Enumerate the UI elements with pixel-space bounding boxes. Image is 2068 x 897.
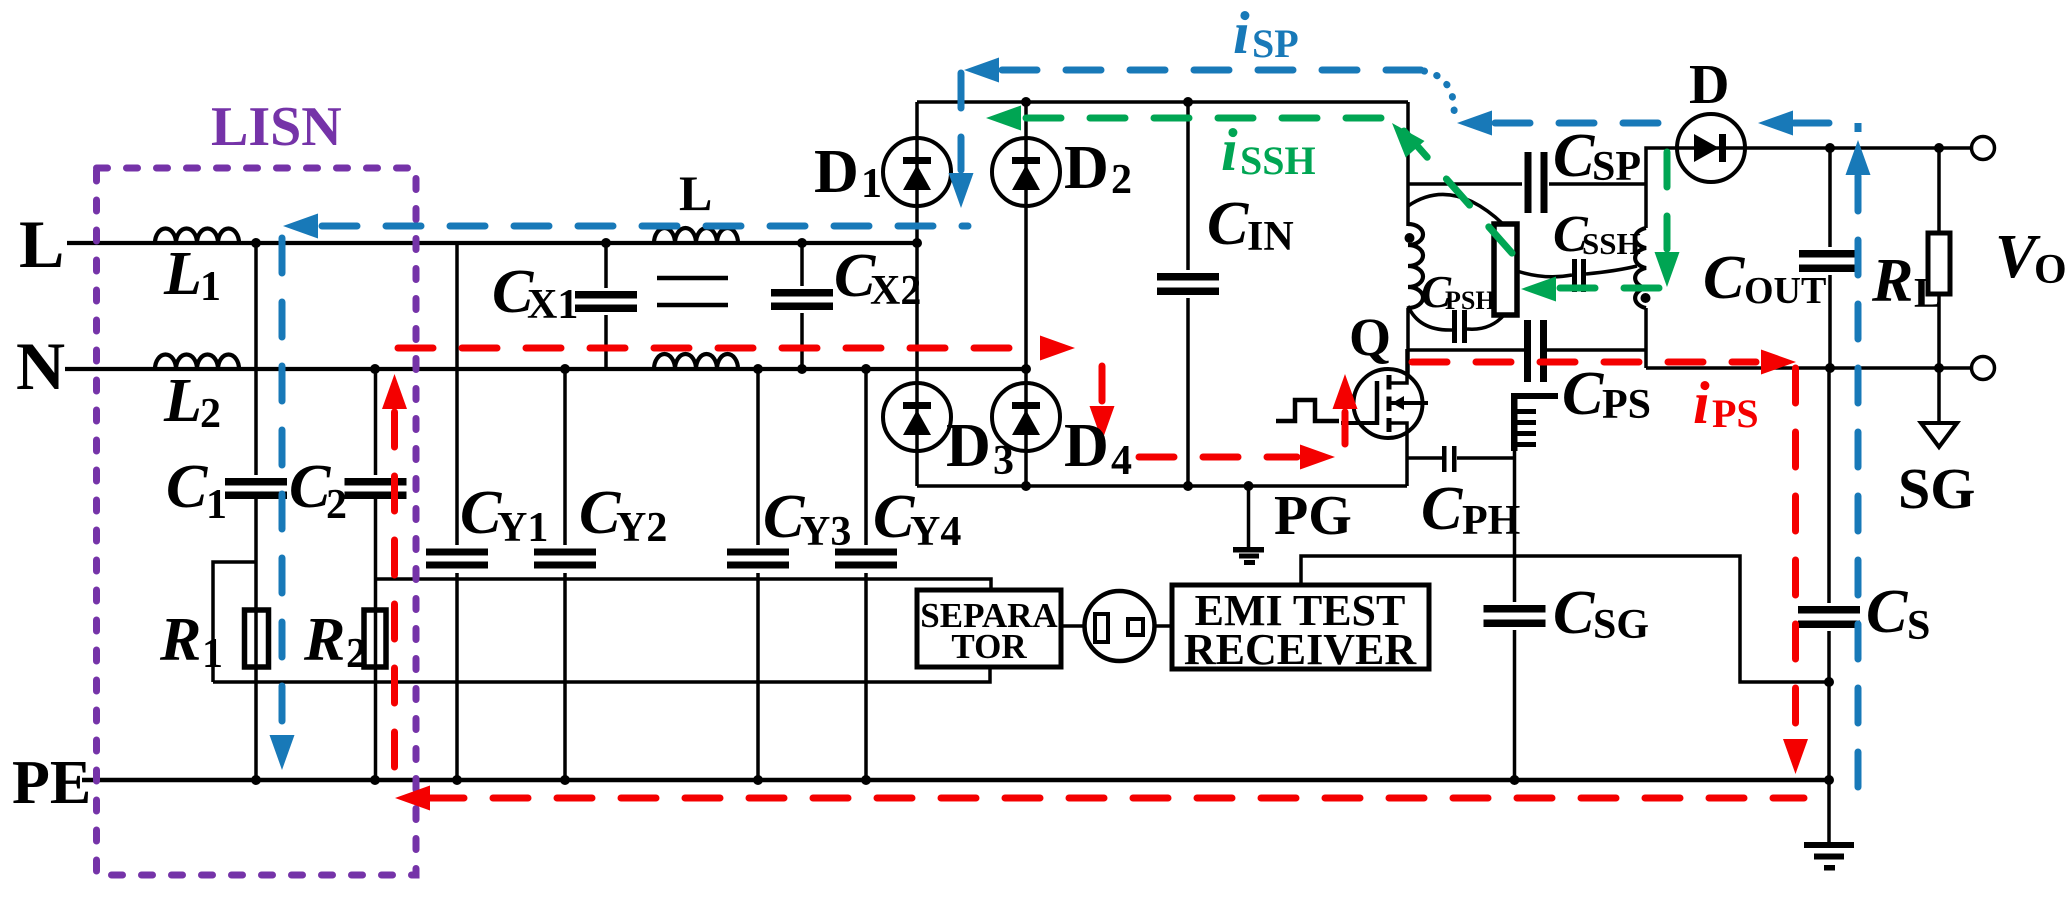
label CPH — [1421, 475, 1520, 544]
label CY1 — [460, 479, 548, 551]
capacitor CIN — [1157, 270, 1220, 298]
node junction 866,369 — [861, 364, 871, 374]
node junction 1939,368 — [1934, 363, 1944, 373]
wire CS branch — [1827, 368, 1831, 844]
wire iSP top segment — [1002, 67, 1424, 74]
node junction 758,780 — [753, 775, 763, 785]
label R1 — [159, 606, 223, 677]
svg-text:PS: PS — [1712, 391, 1759, 436]
arrow iSSH left top — [986, 106, 1021, 131]
arrow iSP left top — [964, 58, 999, 83]
transistor Q circle — [1354, 369, 1423, 438]
wire secondary vertical upper — [1644, 184, 1648, 228]
svg-text:Y1: Y1 — [497, 505, 548, 551]
label C1 — [166, 453, 227, 528]
transistor Q drain lead — [1389, 349, 1407, 383]
label D diode — [1689, 54, 1729, 116]
label CSSH — [1553, 206, 1641, 263]
inductor choke bottom winding — [654, 354, 738, 369]
wire COUT branch — [1828, 148, 1832, 368]
wire iSP mid segment — [1495, 120, 1686, 127]
wire CSSH link right — [1586, 266, 1637, 274]
wire CSSH link left — [1517, 271, 1572, 277]
wire iPS CPS segment — [1412, 359, 1756, 366]
wire bridge left rail — [915, 102, 919, 486]
transistor Q source lead — [1389, 423, 1407, 486]
node junction 565,369 — [560, 364, 570, 374]
label COUT — [1703, 244, 1826, 312]
arrow iSSH diag — [1392, 123, 1425, 158]
choke core line upper — [657, 276, 728, 281]
wire bridge top rail — [917, 100, 1408, 104]
label VO — [1995, 223, 2067, 293]
arrow iSSH left — [1521, 277, 1556, 302]
label iPS — [1693, 370, 1759, 436]
arrow iPS up LISN — [382, 374, 407, 409]
arrow iPS left PE — [395, 786, 430, 811]
svg-text:C: C — [1703, 244, 1745, 312]
wire primary bottom — [1406, 308, 1410, 383]
svg-text:C: C — [1553, 579, 1595, 647]
arrow iPS down D4 — [1090, 406, 1115, 441]
inductor L2 — [155, 355, 239, 370]
node junction 758,369 — [753, 364, 763, 374]
ground earth — [1804, 842, 1854, 871]
wire secondary top — [1646, 148, 1677, 184]
label N — [16, 328, 65, 404]
svg-text:i: i — [1233, 0, 1250, 66]
arrow iSSH down — [1655, 252, 1680, 287]
capacitor COUT — [1799, 247, 1861, 275]
node junction 606,243 — [601, 238, 611, 248]
label LISN — [211, 96, 342, 158]
wire iPS right vertical — [1792, 368, 1799, 734]
wire N line — [65, 367, 1026, 371]
wire C2 branch — [374, 369, 378, 780]
label C2 — [289, 453, 347, 528]
svg-text:L: L — [163, 240, 202, 308]
capacitor CSG — [1484, 602, 1547, 630]
label choke L — [679, 165, 712, 221]
arrow iSP left at LISN — [283, 214, 318, 239]
arrow iPS right — [1040, 336, 1075, 361]
svg-text:R: R — [303, 606, 345, 674]
wire heatsink to PE — [1513, 450, 1517, 780]
inductor choke top winding — [654, 228, 738, 243]
svg-text:PG: PG — [1274, 485, 1352, 547]
svg-text:X2: X2 — [870, 268, 921, 314]
svg-text:S: S — [1907, 603, 1930, 649]
wire PE line — [82, 778, 1829, 783]
svg-text:Y2: Y2 — [616, 505, 667, 551]
ground SG triangle — [1921, 423, 1957, 447]
svg-text:C: C — [460, 479, 502, 547]
node junction 256,243 — [251, 238, 261, 248]
svg-text:OUT: OUT — [1744, 270, 1826, 312]
box SEPARATOR — [917, 590, 1061, 667]
wire gate lead — [1341, 421, 1375, 425]
node junction 1830,368 — [1825, 363, 1835, 373]
svg-text:4: 4 — [1111, 438, 1132, 484]
node junction 1026,486 — [1021, 481, 1031, 491]
node junction 1188,486 — [1183, 481, 1193, 491]
svg-text:2: 2 — [346, 631, 367, 677]
node junction 1248.5,486 — [1244, 481, 1254, 491]
svg-text:3: 3 — [993, 438, 1014, 484]
node junction 375,780 — [370, 775, 380, 785]
label CPS — [1562, 360, 1651, 428]
svg-text:N: N — [16, 328, 65, 404]
capacitor CSP — [1522, 150, 1549, 215]
svg-text:2: 2 — [326, 482, 347, 528]
box EMI TEST RECEIVER — [1172, 585, 1429, 669]
svg-text:L: L — [19, 206, 64, 282]
svg-text:SP: SP — [1252, 21, 1299, 66]
resistor snubber — [1494, 224, 1517, 315]
label Q — [1349, 307, 1391, 367]
label D1 — [814, 138, 882, 207]
node junction 1939,148 — [1934, 143, 1944, 153]
arrow iPS down right — [1783, 739, 1808, 774]
wire iSP dotted curve — [1424, 71, 1457, 121]
wire CIN branch — [1186, 102, 1190, 486]
svg-text:SSH: SSH — [1582, 226, 1641, 261]
node junction 1830,148 — [1825, 143, 1835, 153]
arrow iSP mid left — [1457, 111, 1492, 136]
svg-text:TOR: TOR — [951, 627, 1027, 666]
arrow iPS up Q — [1333, 374, 1358, 409]
label CY3 — [763, 483, 851, 555]
node junction 1829,780 — [1824, 775, 1834, 785]
wire CY3 branch — [756, 369, 760, 780]
inductor transformer secondary — [1635, 228, 1646, 308]
capacitor CY1 — [426, 545, 488, 573]
wire CSP link — [1408, 182, 1645, 186]
transistor Q channel — [1387, 375, 1392, 432]
wire output top rail — [1745, 146, 1971, 150]
svg-text:Y4: Y4 — [910, 509, 961, 555]
arrow iSP down to L — [949, 173, 974, 208]
svg-text:SP: SP — [1592, 144, 1641, 190]
label CY4 — [873, 483, 961, 555]
svg-text:L: L — [163, 367, 202, 435]
heatsink — [1511, 393, 1558, 451]
wire iPS down at D4 — [1099, 366, 1106, 404]
wire RL top — [1937, 148, 1941, 233]
label CSP — [1553, 122, 1641, 190]
label CIN — [1207, 190, 1294, 260]
label EMI TEST RECEIVER text — [1184, 586, 1417, 674]
label CPSH — [1421, 267, 1496, 317]
terminal VO+ — [1972, 137, 1995, 160]
node junction 917,243 — [912, 238, 922, 248]
wire iSP L segment — [322, 223, 968, 230]
wire iSP drop to L — [958, 73, 965, 170]
label D3 — [946, 412, 1014, 484]
node junction 1188,102 — [1183, 97, 1193, 107]
svg-text:C: C — [763, 483, 805, 551]
capacitor CX1 — [575, 288, 637, 315]
svg-text:SSH: SSH — [1240, 138, 1316, 183]
svg-text:D: D — [946, 412, 991, 480]
wire L line — [67, 241, 917, 245]
node junction 1514.5,780 — [1510, 775, 1520, 785]
node junction 457,780 — [452, 775, 462, 785]
transistor Q gate bar — [1375, 381, 1380, 425]
wire bridge bottom rail — [917, 484, 1407, 488]
wire CX2 branch — [800, 243, 804, 369]
capacitor CS — [1798, 603, 1860, 631]
arrow iSP mid left2 — [1758, 111, 1793, 136]
wire iPS up at Q — [1342, 412, 1349, 444]
resistor R1 — [245, 610, 269, 667]
node junction 802,243 — [797, 238, 807, 248]
wire snubber bottom arc left — [1408, 306, 1452, 330]
label CY2 — [579, 479, 667, 551]
svg-text:C: C — [1421, 475, 1463, 543]
label L1 — [163, 240, 221, 310]
wire C1 branch — [254, 243, 258, 780]
wire iSSH secondary vertical — [1664, 152, 1671, 249]
svg-text:i: i — [1693, 370, 1710, 436]
label L — [19, 206, 64, 282]
wire iSP right segment — [1794, 123, 1858, 132]
svg-text:L: L — [1914, 271, 1942, 317]
connector plug circle — [1085, 591, 1155, 661]
wire separator to connector — [1061, 624, 1085, 628]
wire iSSH top segment — [1026, 115, 1384, 122]
label RL — [1871, 247, 1942, 317]
svg-text:C: C — [873, 483, 915, 551]
capacitor C2 — [344, 475, 407, 499]
label CSG — [1553, 579, 1649, 648]
svg-text:X1: X1 — [527, 282, 578, 328]
svg-text:D: D — [1689, 54, 1729, 116]
label PE — [12, 749, 91, 817]
capacitor CPSH — [1452, 310, 1467, 343]
diode D3 — [883, 383, 951, 451]
wire snubber bottom arc right — [1467, 315, 1504, 329]
node junction 1026,369 — [1021, 364, 1031, 374]
wire CPS link — [1408, 348, 1646, 352]
node junction 802,369 — [797, 364, 807, 374]
wire primary top — [1406, 102, 1410, 226]
wire iSP LISN vertical — [279, 238, 286, 732]
node junction 1026,102 — [1021, 97, 1031, 107]
wire secondary vertical lower — [1644, 308, 1648, 368]
node primary polarity dot — [1405, 233, 1415, 243]
label D2 — [1064, 134, 1132, 203]
svg-text:PH: PH — [1462, 498, 1520, 544]
svg-text:Y3: Y3 — [800, 509, 851, 555]
wire iSP right vertical — [1855, 176, 1862, 788]
wire CPH link — [1407, 456, 1513, 460]
svg-text:C: C — [1207, 190, 1249, 258]
svg-text:C: C — [166, 453, 208, 521]
svg-text:C: C — [289, 453, 331, 521]
svg-text:C: C — [579, 479, 621, 547]
wire bridge right rail — [1024, 102, 1028, 486]
node junction 866,780 — [861, 775, 871, 785]
svg-text:L: L — [679, 165, 712, 221]
label SG — [1898, 456, 1975, 521]
svg-text:C: C — [1866, 578, 1908, 646]
svg-text:D: D — [1064, 134, 1109, 202]
wire receiver to CS — [1301, 556, 1829, 682]
label R2 — [303, 606, 367, 677]
capacitor CPH — [1442, 446, 1457, 472]
svg-text:D: D — [1064, 412, 1109, 480]
wire CY2 branch — [563, 369, 567, 780]
svg-text:RECEIVER: RECEIVER — [1184, 625, 1417, 674]
capacitor CY2 — [534, 545, 596, 573]
inductor transformer primary — [1408, 224, 1423, 308]
svg-text:R: R — [1871, 247, 1913, 315]
svg-text:1: 1 — [202, 631, 223, 677]
label SEPARATOR text — [920, 596, 1058, 666]
label CX2 — [834, 242, 921, 314]
svg-text:PSH: PSH — [1445, 286, 1496, 315]
wire iPS up at LISN — [391, 412, 398, 772]
wire iSSH diagonal — [1404, 131, 1519, 261]
wire CX1 branch — [604, 243, 608, 369]
transistor Q body lead — [1389, 396, 1428, 410]
svg-text:SG: SG — [1593, 602, 1649, 648]
wire SG stub — [1937, 368, 1941, 423]
svg-text:PE: PE — [12, 749, 91, 817]
node secondary polarity dot — [1641, 293, 1651, 303]
wire separator lower feed — [213, 667, 990, 682]
node junction 565,780 — [560, 775, 570, 785]
label CX1 — [492, 258, 578, 328]
svg-text:R: R — [159, 606, 201, 674]
diode D — [1677, 114, 1745, 182]
wire iPS N segment — [398, 345, 1034, 352]
wire CY4 branch — [864, 369, 868, 780]
svg-text:C: C — [1553, 122, 1595, 190]
capacitor CSSH — [1572, 259, 1586, 292]
svg-text:2: 2 — [200, 391, 221, 437]
capacitor CX2 — [771, 286, 833, 313]
LISN boundary box — [97, 168, 417, 875]
node junction 375,369 — [370, 364, 380, 374]
wire iSSH horizontal — [1560, 285, 1682, 292]
capacitor CY4 — [835, 545, 897, 573]
gate pulse symbol — [1276, 400, 1339, 421]
resistor R2 — [364, 610, 386, 667]
arrow iPS right CPS — [1761, 350, 1796, 375]
ground PG — [1233, 547, 1264, 565]
terminal VO- — [1972, 357, 1995, 380]
capacitor C1 — [225, 475, 287, 499]
label PG — [1274, 485, 1352, 547]
arrow iPS right mid — [1300, 445, 1335, 470]
node junction 1829,682 — [1824, 677, 1834, 687]
svg-text:1: 1 — [861, 161, 882, 207]
label L2 — [163, 367, 221, 437]
wire CY1 branch — [455, 243, 459, 780]
wire connector to receiver — [1154, 624, 1172, 628]
svg-text:SG: SG — [1898, 456, 1975, 521]
wire R1 tap bracket — [213, 562, 256, 682]
diode D4 — [992, 383, 1060, 451]
svg-text:1: 1 — [206, 482, 227, 528]
wire output bottom rail — [1646, 366, 1971, 370]
label iSP — [1233, 0, 1299, 66]
wire RL bottom — [1937, 294, 1941, 368]
svg-text:O: O — [2034, 247, 2067, 293]
svg-text:1: 1 — [200, 264, 221, 310]
arrow iSP up right — [1846, 140, 1871, 175]
diode D1 — [883, 138, 951, 206]
svg-text:C: C — [1562, 360, 1604, 428]
wire PG stub — [1247, 486, 1251, 549]
label iSSH — [1221, 117, 1316, 183]
svg-text:Q: Q — [1349, 307, 1391, 367]
diode D2 — [992, 138, 1060, 206]
resistor RL — [1928, 233, 1950, 294]
label CS — [1866, 578, 1930, 649]
wire iPS bottom segment — [1139, 454, 1297, 461]
svg-text:PS: PS — [1602, 382, 1651, 428]
svg-text:i: i — [1221, 117, 1238, 183]
capacitor CY3 — [727, 545, 789, 573]
svg-text:LISN: LISN — [211, 96, 342, 158]
choke core line lower — [657, 303, 728, 308]
node junction 256,780 — [251, 775, 261, 785]
inductor L1 — [155, 229, 239, 244]
arrow iSP down to PE — [270, 735, 295, 770]
label D4 — [1064, 412, 1132, 484]
capacitor CPS — [1524, 320, 1547, 382]
svg-text:D: D — [814, 138, 859, 206]
wire snubber top arc — [1408, 194, 1503, 224]
wire iPS PE return — [429, 795, 1804, 802]
svg-text:IN: IN — [1247, 214, 1294, 260]
svg-text:2: 2 — [1111, 157, 1132, 203]
wire separator upper feed — [376, 579, 992, 590]
